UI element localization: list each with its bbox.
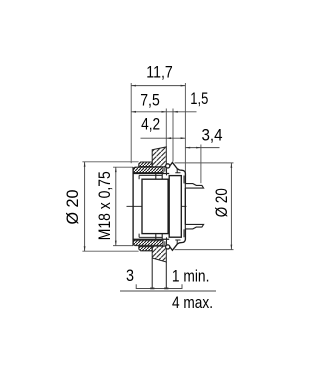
dimension 7,5 / 1,5 line [131,111,196,113]
extension line pin tip [200,145,202,184]
extension line housing rear [184,83,186,174]
M18 extension top [113,166,133,168]
diameter 20 left extension top [82,161,138,163]
rear insert rectangle [169,176,181,238]
svg-text:4 max.: 4 max. [172,293,213,312]
dimension 4,2 line [141,137,186,139]
claw bottom inner lines [175,229,184,244]
diameter 20 left extension bottom [82,250,138,252]
svg-text:Ø 20: Ø 20 [63,190,82,225]
dimension 7,5 arrows [131,111,166,113]
fraction line [120,290,216,292]
extension line panel rear face [165,109,167,147]
dimension 3,4 arrows [185,147,201,149]
o-ring groove top [163,167,167,175]
svg-text:3: 3 [126,266,134,285]
extension line left (front face) [130,83,132,163]
nut bar bottom [139,246,152,251]
neck bar bottom [133,240,163,245]
svg-text:4,2: 4,2 [141,114,160,133]
insert rectangle [142,179,168,233]
dimension 11,7 arrows [131,85,185,87]
diameter 20 left text [63,190,82,225]
body left face [132,167,134,245]
M18 dimension line [115,167,117,245]
panel bottom hatch [152,246,166,262]
rear face between pins [184,188,186,224]
step line top [139,175,163,179]
solder pin lower [185,224,203,229]
claw top outline [169,163,186,184]
claw bottom outline [169,229,186,250]
svg-text:1,5: 1,5 [190,89,208,108]
dimension 3 arrows [150,288,168,290]
svg-text:1 min.: 1 min. [172,267,210,286]
solder pin upper [185,184,203,189]
diameter 20 right extension top [175,162,234,164]
diameter 20 right extension bottom [175,249,234,251]
svg-text:M18 x 0,75: M18 x 0,75 [95,171,114,240]
dimension 3 line [136,288,182,290]
M18 extension bottom [113,245,133,247]
extension line claw peak [172,109,174,162]
o-ring groove bottom [163,237,167,245]
dimension 4,2 arrows [166,137,185,139]
diameter 20 right text [212,188,231,217]
svg-text:3,4: 3,4 [202,125,223,144]
dimension 3,4 line [185,147,219,149]
diameter 20 left arrows [84,162,86,251]
neck bar top (threaded wall) [133,167,163,172]
diameter 20 right dimension line [230,163,232,250]
dimension 3 tails [135,284,137,289]
o-ring bottom [166,245,170,249]
svg-text:Ø 20: Ø 20 [212,188,231,217]
step line bottom [139,234,163,238]
claw top inner lines [175,169,184,184]
svg-text:11,7: 11,7 [146,62,173,81]
panel bottom outline extensions [151,258,153,289]
body inner top edge [133,173,169,175]
keyway notch top [156,174,162,180]
keyway notch bottom [156,234,162,240]
center line [127,205,187,207]
o-ring top [166,164,170,168]
thread label M18 x 0,75 [95,171,114,240]
dimension 1,5 right outside arrow [173,111,178,113]
dimension 11,7 line [131,85,185,87]
body inner bottom edge [133,238,169,240]
diameter 20 left dimension line [84,162,86,251]
diameter 20 right arrows [231,163,233,250]
panel top hatch [152,147,166,167]
M18 arrows [115,167,117,245]
nut bar top [139,162,152,167]
svg-text:7,5: 7,5 [140,91,160,110]
